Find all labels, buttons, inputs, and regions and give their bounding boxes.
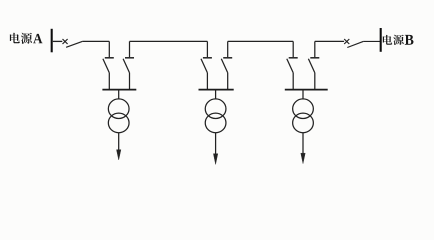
- disconnector QS2: [123, 41, 134, 89]
- wire: segment source A to QS1: [82, 40, 109, 42]
- wire: stub to bus B: [363, 40, 380, 42]
- wire: bus section between QS4 and QS5: [228, 40, 294, 42]
- disconnector QS6: [308, 41, 319, 89]
- bus bar A: [51, 29, 53, 53]
- junction bar node 3: [285, 89, 328, 91]
- disconnector QS1: [103, 41, 114, 89]
- label: power source B text: [383, 35, 414, 45]
- junction bar node 2: [199, 89, 234, 91]
- junction bar node 1: [102, 89, 136, 91]
- link symbol X at source A: [63, 39, 68, 44]
- feeder arrow T3: [301, 133, 305, 164]
- wire: segment QS6 to source B: [315, 40, 344, 42]
- link symbol X at source B: [344, 39, 349, 44]
- transformer T3: [293, 90, 314, 133]
- disconnector QS5: [287, 41, 298, 89]
- switch blade at source A: [66, 41, 82, 47]
- feeder arrow T2: [213, 133, 217, 164]
- bus bar B: [380, 28, 382, 52]
- wire: bus section between QS2 and QS3: [130, 40, 208, 42]
- disconnector QS3: [201, 41, 212, 89]
- transformer T2: [205, 90, 226, 133]
- disconnector QS4: [221, 41, 232, 89]
- transformer T1: [108, 90, 129, 133]
- wire: stub from bus A: [53, 40, 63, 42]
- label: power source A text: [10, 33, 43, 44]
- switch blade at source B: [347, 41, 363, 47]
- feeder arrow T1: [117, 133, 121, 160]
